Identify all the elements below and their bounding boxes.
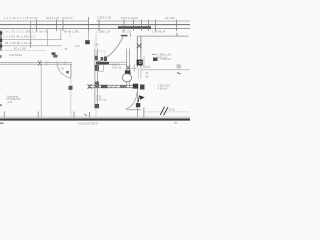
svg-text:2.385 1.24: 2.385 1.24 (97, 16, 112, 20)
svg-text:1.24 96 24: 1.24 96 24 (152, 29, 166, 33)
svg-text:2.0 1.35 96 2.385 1.2: 2.0 1.35 96 2.385 1.2 (3, 35, 35, 39)
svg-text:1.90: 1.90 (94, 42, 100, 46)
svg-text:96 2.0 1.24: 96 2.0 1.24 (46, 16, 60, 20)
svg-text:+2.74: +2.74 (7, 102, 14, 104)
svg-text:2.50 1.24: 2.50 1.24 (161, 58, 172, 61)
svg-text:24 2.50: 24 2.50 (165, 16, 175, 20)
svg-text:1.24: 1.24 (75, 45, 80, 48)
svg-text:3.66 m2: 3.66 m2 (112, 66, 122, 70)
svg-text:24.05: 24.05 (169, 108, 176, 112)
svg-text:4.06 m2: 4.06 m2 (158, 87, 169, 91)
svg-text:82 x 1.98: 82 x 1.98 (14, 46, 26, 50)
svg-text:96 2.50: 96 2.50 (122, 29, 132, 33)
svg-text:45 90 1.0: 45 90 1.0 (62, 17, 73, 20)
svg-text:90 45 1.385: 90 45 1.385 (64, 29, 79, 33)
svg-text:LUFTUNG: LUFTUNG (9, 53, 22, 57)
svg-text:2.geschoss: 2.geschoss (7, 96, 19, 98)
svg-text:82 1.98 82 1.24 45: 82 1.98 82 1.24 45 (5, 41, 32, 45)
svg-text:1.96 m2: 1.96 m2 (96, 97, 107, 101)
svg-text:2.50 1.24 96: 2.50 1.24 96 (121, 16, 138, 20)
svg-text:24 0.30 24 STB 25: 24 0.30 24 STB 25 (78, 123, 99, 126)
svg-text:2.0 1.35 1.0 2.385 1.24 96 45: 2.0 1.35 1.0 2.385 1.24 96 45 (3, 30, 48, 34)
svg-text:1.0 2.35 1.0 1.35 50 96: 1.0 2.35 1.0 1.35 50 96 (4, 16, 38, 20)
